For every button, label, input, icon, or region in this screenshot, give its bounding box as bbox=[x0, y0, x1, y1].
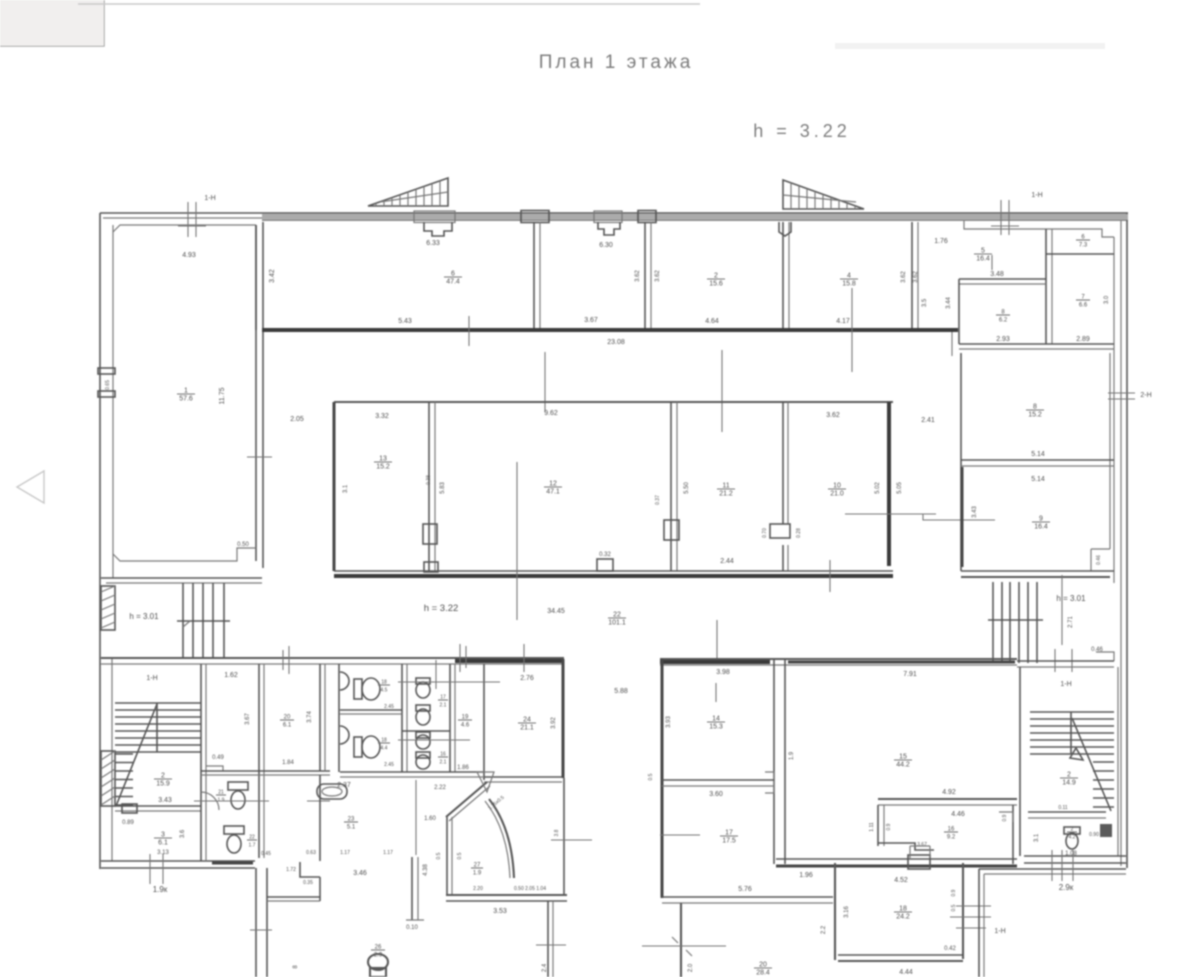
svg-text:1.96: 1.96 bbox=[799, 872, 813, 879]
wall x203 bbox=[200, 664, 202, 861]
svg-text:15.9: 15.9 bbox=[156, 781, 170, 788]
room 24 right wall thick bbox=[562, 659, 565, 778]
diagonal wall bbox=[446, 782, 487, 817]
svg-text:5.88: 5.88 bbox=[614, 688, 628, 695]
room 14 bottom wall bbox=[662, 779, 774, 781]
svg-text:3.43: 3.43 bbox=[158, 797, 172, 804]
room 10 right wall thick bbox=[887, 402, 891, 566]
svg-text:0.42: 0.42 bbox=[944, 946, 956, 952]
svg-text:0.9: 0.9 bbox=[886, 823, 892, 830]
svg-text:0.90: 0.90 bbox=[1089, 832, 1099, 838]
svg-text:3.67: 3.67 bbox=[245, 713, 251, 725]
svg-text:5.02: 5.02 bbox=[875, 482, 881, 494]
svg-text:0.45: 0.45 bbox=[261, 851, 271, 857]
svg-text:1.11: 1.11 bbox=[869, 822, 875, 832]
svg-text:4.5: 4.5 bbox=[381, 688, 388, 694]
svg-text:3.32: 3.32 bbox=[375, 413, 389, 420]
svg-text:0.38: 0.38 bbox=[426, 475, 432, 485]
stair arrow tick bbox=[183, 621, 190, 627]
tick crossing corridor wall bbox=[250, 929, 272, 931]
wall x261 bbox=[258, 664, 260, 858]
svg-text:3.8: 3.8 bbox=[554, 829, 560, 836]
svg-text:0.28: 0.28 bbox=[796, 528, 802, 538]
svg-text:0.11: 0.11 bbox=[1058, 805, 1068, 811]
svg-text:4.4: 4.4 bbox=[381, 746, 388, 752]
room 16 (9.2) bbox=[878, 798, 1017, 800]
svg-text:3.44: 3.44 bbox=[946, 297, 952, 309]
room 1 (57.6) inner outline bbox=[113, 225, 256, 232]
window opening W3 bbox=[594, 211, 622, 223]
svg-text:9.2: 9.2 bbox=[947, 835, 956, 841]
svg-text:0.35: 0.35 bbox=[303, 880, 313, 886]
svg-text:5.05: 5.05 bbox=[897, 482, 903, 494]
right stair flight from corridor bbox=[992, 582, 994, 663]
stair lower wall bbox=[1028, 811, 1106, 813]
tick on wing top wall bbox=[288, 646, 290, 674]
dim tick below block x830 bbox=[829, 560, 831, 592]
svg-text:3.62: 3.62 bbox=[901, 271, 907, 283]
svg-text:План 1 этажа: План 1 этажа bbox=[539, 52, 694, 73]
stair room label bbox=[154, 773, 172, 788]
bottom wall of room 9 bbox=[961, 570, 1114, 572]
wall x786 bbox=[782, 222, 784, 330]
wall between 14 and 15 x774-785 bbox=[773, 659, 775, 864]
room 3 bbox=[154, 832, 172, 847]
outer wall: right bbox=[1126, 213, 1128, 868]
entrance ticks 2.9K bbox=[1051, 850, 1053, 881]
svg-text:1.9: 1.9 bbox=[473, 871, 482, 877]
left stair: outer hatched wall bbox=[101, 586, 115, 630]
svg-text:2.22: 2.22 bbox=[434, 785, 446, 791]
svg-text:3.6: 3.6 bbox=[180, 829, 186, 838]
jog complex below left block bbox=[267, 896, 320, 898]
svg-text:2.89: 2.89 bbox=[1076, 336, 1090, 343]
svg-text:3.67: 3.67 bbox=[584, 317, 598, 324]
dim tick 1-H left on top wall bbox=[187, 202, 189, 237]
wc toilet bottom bbox=[354, 737, 362, 757]
faint scan smudge top-left bbox=[0, 0, 104, 46]
svg-text:15.6: 15.6 bbox=[709, 281, 723, 288]
svg-text:6.30: 6.30 bbox=[599, 242, 613, 249]
right stair treads bbox=[1030, 711, 1114, 713]
step corner right bbox=[1096, 652, 1114, 661]
middle block bottom wall bbox=[334, 570, 893, 572]
svg-text:3.74: 3.74 bbox=[307, 711, 313, 723]
ticks between 8 and 5 bbox=[951, 332, 953, 356]
svg-text:3.42: 3.42 bbox=[269, 269, 276, 283]
svg-text:3.62: 3.62 bbox=[635, 270, 641, 282]
dim tick 1-H right on top wall bbox=[1000, 200, 1002, 235]
svg-text:24.2: 24.2 bbox=[896, 914, 910, 921]
svg-text:3.92: 3.92 bbox=[551, 717, 557, 729]
svg-text:1.86: 1.86 bbox=[457, 765, 469, 771]
svg-text:21.0: 21.0 bbox=[830, 491, 844, 498]
svg-text:3.5: 3.5 bbox=[922, 298, 928, 307]
labels bbox=[1026, 404, 1044, 419]
long centerline x545 down bbox=[544, 352, 546, 412]
svg-text:3.53: 3.53 bbox=[493, 908, 507, 915]
svg-text:4.46: 4.46 bbox=[951, 811, 965, 818]
svg-text:16.4: 16.4 bbox=[976, 256, 990, 263]
wall between 11 and 10 (door) bbox=[782, 402, 784, 524]
svg-text:1-Н: 1-Н bbox=[1031, 192, 1042, 199]
svg-text:1.62: 1.62 bbox=[224, 672, 238, 679]
entrance ticks + 1.9K bbox=[149, 854, 151, 884]
svg-text:3.0: 3.0 bbox=[1104, 295, 1110, 304]
svg-text:2.2: 2.2 bbox=[821, 925, 827, 934]
dim vertical below 12 bbox=[516, 462, 518, 620]
door notch 0.32 bbox=[597, 559, 613, 571]
room 24 bottom wall bbox=[484, 776, 562, 778]
svg-text:3.16: 3.16 bbox=[844, 906, 850, 918]
svg-text:5.14: 5.14 bbox=[1031, 476, 1045, 483]
svg-text:28.4: 28.4 bbox=[756, 970, 770, 977]
svg-text:3.62: 3.62 bbox=[826, 412, 840, 419]
wall x684 below bbox=[680, 903, 682, 977]
room 14 bbox=[715, 683, 717, 702]
wing right wall x322 bbox=[319, 664, 321, 771]
dim left of room25 bbox=[415, 780, 417, 855]
wall between 57.6 and 47.4 upper bbox=[255, 225, 257, 330]
dark left wall segment of room 9 bbox=[961, 467, 964, 567]
room 7 / room 8 bbox=[959, 278, 1046, 280]
svg-text:h = 3.22: h = 3.22 bbox=[753, 121, 851, 141]
svg-text:2.45: 2.45 bbox=[384, 762, 394, 768]
room 15.2 walls bbox=[960, 353, 962, 571]
room 18 bbox=[834, 863, 836, 960]
svg-text:1-Н: 1-Н bbox=[146, 675, 157, 682]
svg-text:6.2: 6.2 bbox=[999, 318, 1008, 324]
room 1 bottom wall with 0.50 notch bbox=[113, 548, 256, 561]
svg-text:21.2: 21.2 bbox=[719, 491, 733, 498]
wc block walls bbox=[338, 664, 340, 772]
svg-text:3.43: 3.43 bbox=[972, 506, 978, 518]
svg-text:5.83: 5.83 bbox=[440, 482, 446, 494]
svg-text:0.49: 0.49 bbox=[212, 755, 224, 761]
bath oval bbox=[317, 784, 347, 799]
window opening W4 bbox=[638, 211, 656, 223]
svg-text:1.9к: 1.9к bbox=[153, 885, 168, 894]
svg-text:2.9: 2.9 bbox=[374, 953, 383, 959]
staircase left: treads bbox=[115, 702, 201, 704]
svg-text:5.50: 5.50 bbox=[684, 482, 690, 494]
room 20 small bbox=[280, 715, 294, 729]
svg-text:15.2: 15.2 bbox=[1028, 412, 1042, 419]
wall between 12 and 11 bbox=[670, 402, 672, 571]
middle block left wall bbox=[333, 402, 336, 571]
hatched triangle left (canopy) bbox=[368, 178, 448, 206]
outer wall: left bbox=[99, 213, 101, 869]
svg-text:0.5: 0.5 bbox=[648, 773, 654, 780]
corridor top wall right of stair bbox=[1017, 660, 1114, 662]
svg-text:4.6: 4.6 bbox=[461, 723, 470, 729]
svg-text:2-Н: 2-Н bbox=[1140, 392, 1151, 399]
svg-text:101.1: 101.1 bbox=[608, 620, 626, 627]
door gap with step bbox=[908, 855, 930, 869]
window opening W2 bbox=[521, 211, 549, 223]
tick on room1 right wall bbox=[247, 456, 272, 458]
svg-text:4.64: 4.64 bbox=[705, 318, 719, 325]
svg-text:2.1: 2.1 bbox=[440, 760, 447, 766]
svg-text:2.76: 2.76 bbox=[520, 675, 534, 682]
svg-text:16.4: 16.4 bbox=[1034, 524, 1048, 531]
svg-text:17.5: 17.5 bbox=[722, 838, 736, 845]
svg-text:3.46: 3.46 bbox=[353, 870, 367, 877]
svg-text:0.32: 0.32 bbox=[599, 552, 611, 558]
svg-text:3.93: 3.93 bbox=[666, 716, 672, 728]
toilet icon room 26 bbox=[368, 954, 388, 970]
svg-text:14.9: 14.9 bbox=[1062, 780, 1076, 787]
svg-text:2.93: 2.93 bbox=[996, 336, 1010, 343]
staircase lower flight hatch bbox=[115, 753, 133, 755]
svg-text:0.37: 0.37 bbox=[655, 495, 661, 505]
svg-text:2.0: 2.0 bbox=[688, 963, 694, 972]
wall x648 bbox=[644, 222, 646, 330]
svg-text:1-Н: 1-Н bbox=[1060, 681, 1071, 688]
svg-text:7.91: 7.91 bbox=[903, 671, 917, 678]
short wall x415 below room25 lobby bbox=[411, 857, 413, 920]
outer wall: top bbox=[100, 212, 1128, 214]
door notch room 2 top bbox=[779, 222, 791, 236]
svg-text:4.92: 4.92 bbox=[942, 789, 956, 796]
wall y771 bbox=[201, 770, 330, 772]
carousel left arrow bbox=[17, 471, 44, 503]
dim line at y514 room10 bbox=[845, 513, 936, 515]
svg-text:1-Н: 1-Н bbox=[204, 195, 215, 202]
wall room 47.4 right bbox=[533, 222, 535, 330]
dim vertical x722 bbox=[721, 350, 723, 432]
dim vertical x852 bbox=[851, 288, 853, 372]
svg-text:21.1: 21.1 bbox=[520, 725, 534, 732]
svg-text:2.20: 2.20 bbox=[473, 886, 483, 892]
wc texts bbox=[378, 680, 390, 694]
svg-text:0.89: 0.89 bbox=[122, 820, 134, 826]
stair block bottom wall bbox=[1024, 855, 1126, 857]
wing top wall right part bbox=[660, 658, 1017, 660]
2-H tick right wall bbox=[1108, 392, 1135, 394]
svg-text:1.72: 1.72 bbox=[286, 867, 296, 873]
toilet fixture 21 bbox=[228, 782, 248, 790]
svg-text:3.1: 3.1 bbox=[1034, 833, 1040, 842]
svg-text:0.10: 0.10 bbox=[406, 925, 418, 931]
room 25 left wall bbox=[446, 817, 448, 895]
svg-text:2.45: 2.45 bbox=[384, 704, 394, 710]
wall between 13 and 12 bbox=[428, 402, 430, 571]
toilet fixture 22 bbox=[224, 826, 244, 834]
window notch in wall 13/12 bbox=[423, 524, 437, 544]
svg-text:h = 3.22: h = 3.22 bbox=[424, 603, 459, 614]
svg-text:0.46: 0.46 bbox=[1096, 555, 1102, 565]
svg-text:3.60: 3.60 bbox=[709, 791, 723, 798]
svg-text:0.70: 0.70 bbox=[762, 528, 768, 538]
inner step top-right corner bbox=[964, 220, 1114, 237]
svg-text:11.75: 11.75 bbox=[219, 387, 226, 404]
svg-text:2.4: 2.4 bbox=[542, 963, 548, 972]
svg-text:3.62: 3.62 bbox=[913, 271, 919, 283]
stair outer hatched wall bbox=[101, 751, 115, 806]
svg-text:8: 8 bbox=[293, 965, 299, 969]
svg-text:2.71: 2.71 bbox=[1068, 616, 1074, 628]
svg-text:57.6: 57.6 bbox=[179, 396, 193, 403]
svg-text:4.52: 4.52 bbox=[894, 877, 908, 884]
wall under rooms 7/8 bbox=[959, 343, 1114, 345]
svg-text:15.8: 15.8 bbox=[842, 281, 856, 288]
divider 15.2/16.4 bbox=[961, 459, 1114, 461]
svg-text:0.9: 0.9 bbox=[1002, 814, 1008, 821]
dim tick on bottom wall x469 bbox=[468, 316, 470, 346]
svg-text:7.3: 7.3 bbox=[1079, 243, 1088, 249]
svg-text:1.84: 1.84 bbox=[282, 760, 294, 766]
staircase diagonal bbox=[116, 704, 157, 806]
svg-text:23.08: 23.08 bbox=[607, 339, 625, 346]
svg-text:2.44: 2.44 bbox=[720, 558, 734, 565]
svg-text:4.17: 4.17 bbox=[836, 318, 850, 325]
svg-text:4.2: 4.2 bbox=[1069, 835, 1076, 841]
svg-text:6.1: 6.1 bbox=[158, 840, 168, 847]
svg-text:0.63: 0.63 bbox=[306, 850, 316, 856]
svg-text:4.93: 4.93 bbox=[182, 252, 196, 259]
window opening W1 in top wall bbox=[414, 211, 455, 223]
svg-text:1.17: 1.17 bbox=[340, 850, 350, 856]
svg-text:5.76: 5.76 bbox=[738, 886, 752, 893]
faint dotted scan line top edge bbox=[78, 3, 700, 5]
middle block top wall bbox=[334, 401, 893, 403]
room 19 bbox=[458, 715, 472, 729]
dim crossing lines in wc bbox=[398, 681, 500, 683]
svg-text:0.9: 0.9 bbox=[951, 889, 957, 896]
svg-text:0.5: 0.5 bbox=[436, 852, 442, 859]
svg-text:9.62: 9.62 bbox=[544, 410, 558, 417]
room 17 bbox=[720, 830, 738, 845]
svg-text:1.9: 1.9 bbox=[789, 751, 795, 760]
svg-text:0.50 2.05 1.04: 0.50 2.05 1.04 bbox=[514, 886, 546, 892]
wc sinks left wall bbox=[340, 672, 349, 690]
grey band of top wall bbox=[262, 214, 1128, 220]
svg-text:3.1: 3.1 bbox=[343, 484, 349, 493]
porch walls bottom right bbox=[978, 869, 980, 977]
big room bottom wall bbox=[776, 858, 1017, 860]
room 15 big bbox=[894, 754, 912, 769]
svg-text:47.1: 47.1 bbox=[546, 489, 560, 496]
left stair upper flight treads bbox=[182, 583, 184, 659]
window notch on left wall bbox=[98, 368, 115, 374]
svg-text:2.41: 2.41 bbox=[921, 417, 935, 424]
svg-text:6.6: 6.6 bbox=[1079, 303, 1088, 309]
svg-text:2.1: 2.1 bbox=[440, 703, 447, 709]
svg-text:1.76: 1.76 bbox=[934, 238, 948, 245]
svg-text:34.45: 34.45 bbox=[547, 608, 565, 615]
wall x915 bbox=[911, 222, 913, 330]
svg-text:44.2: 44.2 bbox=[896, 762, 910, 769]
svg-text:0.5: 0.5 bbox=[457, 852, 463, 859]
wing bottom wall bbox=[101, 860, 255, 862]
svg-text:4.44: 4.44 bbox=[899, 969, 913, 976]
faint smudge right bbox=[835, 43, 1105, 49]
wall y897 from room17 bbox=[662, 896, 833, 898]
svg-text:47.4: 47.4 bbox=[446, 279, 460, 286]
urinal stack middle column bbox=[416, 678, 430, 684]
dim line through WC bbox=[194, 800, 269, 802]
svg-text:0.65: 0.65 bbox=[105, 380, 111, 390]
svg-text:1.17: 1.17 bbox=[383, 850, 393, 856]
svg-text:1.7: 1.7 bbox=[249, 843, 256, 849]
svg-text:15.3: 15.3 bbox=[709, 724, 723, 731]
wc toilet top bbox=[354, 679, 362, 699]
svg-text:1-Н: 1-Н bbox=[994, 928, 1005, 935]
ticks right of room 18 bbox=[956, 905, 991, 907]
wing top wall bbox=[101, 657, 564, 659]
svg-text:2.9к: 2.9к bbox=[1059, 883, 1074, 892]
room 6 small top right bbox=[1045, 229, 1047, 344]
door swing arc WC bbox=[201, 792, 219, 810]
door leaf triangle bbox=[477, 772, 494, 792]
svg-text:3.98: 3.98 bbox=[716, 669, 730, 676]
svg-text:h = 3.01: h = 3.01 bbox=[1056, 594, 1086, 603]
svg-text:3.48: 3.48 bbox=[990, 271, 1004, 278]
room 14 left wall bbox=[661, 659, 664, 898]
svg-text:6.33: 6.33 bbox=[426, 240, 440, 247]
svg-text:h = 3.01: h = 3.01 bbox=[129, 612, 159, 621]
room 25 bottom wall bbox=[446, 894, 567, 896]
svg-text:5.1: 5.1 bbox=[347, 825, 356, 831]
svg-text:6.1: 6.1 bbox=[283, 723, 292, 729]
dim vertical x717 bbox=[716, 620, 718, 658]
right stair block bbox=[1019, 667, 1021, 856]
landing bottom wall bbox=[115, 805, 201, 807]
corridor wall below x256-267 bbox=[255, 868, 257, 977]
wall below x550 bbox=[547, 901, 549, 977]
svg-text:3.62: 3.62 bbox=[655, 270, 661, 282]
svg-text:2.05: 2.05 bbox=[290, 416, 304, 423]
bottom wall of top row (thick) bbox=[262, 328, 958, 332]
room 1 label bbox=[177, 388, 195, 403]
door gap at x 423-440 bottom bbox=[424, 562, 438, 572]
hatched triangle right (canopy) bbox=[783, 180, 864, 209]
svg-text:3.67: 3.67 bbox=[917, 842, 927, 848]
svg-text:4.38: 4.38 bbox=[423, 864, 429, 876]
svg-text:15.2: 15.2 bbox=[376, 464, 390, 471]
svg-text:0.50: 0.50 bbox=[237, 542, 249, 548]
svg-text:5.14: 5.14 bbox=[1031, 451, 1045, 458]
svg-text:1.60: 1.60 bbox=[424, 816, 436, 822]
curved wall bbox=[489, 799, 514, 878]
svg-text:5.43: 5.43 bbox=[398, 318, 412, 325]
svg-text:0.5: 0.5 bbox=[951, 904, 957, 911]
room 27 labels bbox=[471, 863, 483, 877]
